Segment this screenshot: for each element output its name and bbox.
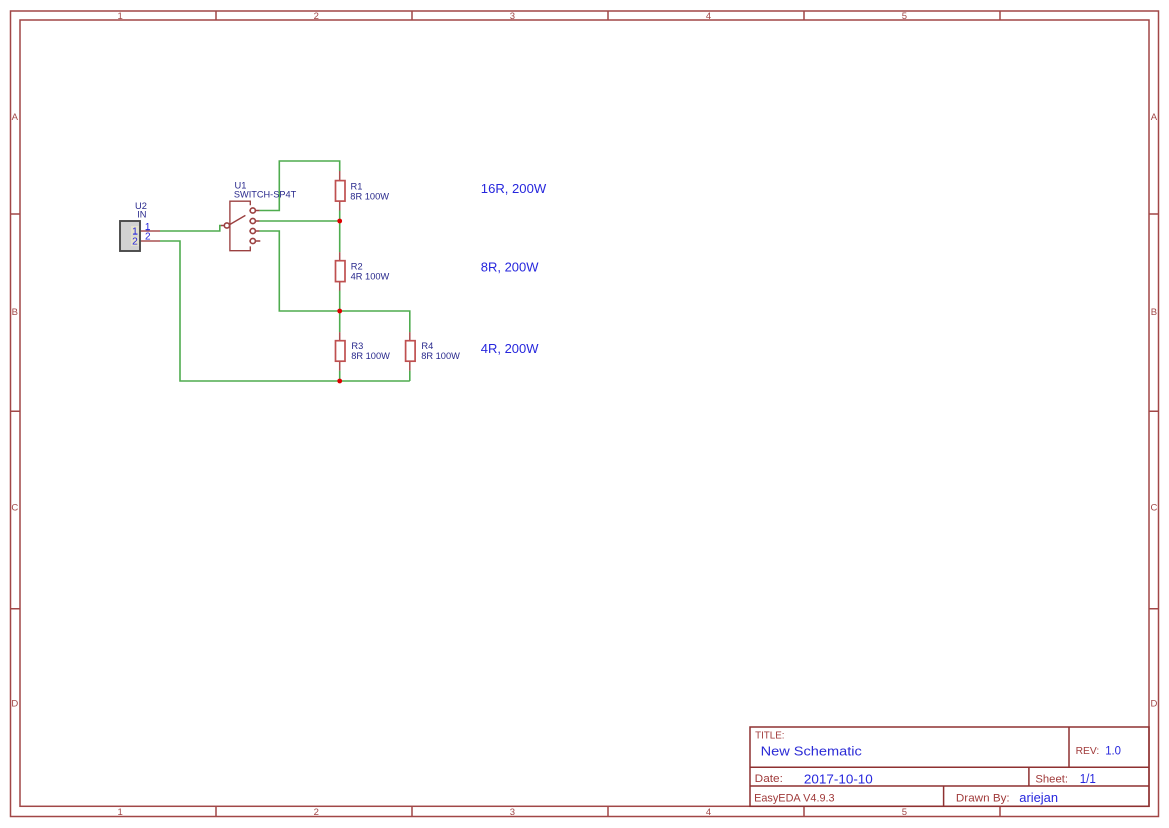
- svg-text:EasyEDA V4.9.3: EasyEDA V4.9.3: [754, 793, 835, 805]
- frame column labels bottom: [118, 807, 907, 818]
- svg-text:5: 5: [902, 11, 907, 22]
- wire pin2 U2 down and bottom rail to R4 leg: [160, 241, 410, 381]
- svg-text:4R, 200W: 4R, 200W: [481, 341, 539, 356]
- svg-text:8R, 200W: 8R, 200W: [481, 260, 539, 275]
- wire node B right to R4 top: [340, 311, 410, 332]
- connector U2 pin 1 stub: [140, 230, 160, 232]
- svg-text:C: C: [1150, 503, 1157, 514]
- resistor R3 pin stubs: [339, 332, 341, 371]
- wire R4 bottom to bottom rail: [409, 371, 411, 381]
- label R3: [351, 341, 390, 361]
- svg-text:Sheet:: Sheet:: [1035, 773, 1068, 785]
- frame row labels right: [1150, 112, 1157, 709]
- left row ticks: [11, 214, 21, 609]
- label R4: [421, 341, 460, 361]
- svg-text:4: 4: [706, 11, 711, 22]
- connector U2 pin 2 stub: [140, 240, 160, 242]
- resistor R3 body: [336, 341, 346, 362]
- svg-text:TITLE:: TITLE:: [755, 730, 784, 741]
- svg-text:D: D: [1150, 698, 1157, 709]
- wire R3 bottom to node C: [339, 371, 341, 381]
- wire switch throw3 down to node B: [259, 231, 340, 311]
- right row ticks: [1149, 214, 1159, 609]
- connector U2 body: [120, 221, 140, 251]
- junction node B: [337, 309, 342, 314]
- U2 pin numbers outside: [145, 222, 151, 242]
- label R2: [351, 262, 390, 282]
- svg-text:8R 100W: 8R 100W: [350, 192, 389, 202]
- svg-text:16R, 200W: 16R, 200W: [481, 181, 547, 196]
- svg-text:4: 4: [706, 807, 711, 818]
- switch U1 body outline: [230, 201, 250, 251]
- switch U1 common contact: [224, 223, 229, 228]
- U2 pin names inside: [132, 227, 138, 248]
- svg-text:Date:: Date:: [755, 773, 783, 785]
- wire pin1 U2 to switch common: [160, 226, 221, 232]
- svg-text:2: 2: [314, 11, 319, 22]
- wire switch throw1 up to R1 top: [259, 161, 340, 211]
- wire R2 bottom to R3 top: [339, 291, 341, 333]
- svg-text:R4: R4: [421, 341, 433, 351]
- svg-text:D: D: [11, 698, 18, 709]
- frame row labels left: [11, 112, 18, 709]
- svg-text:1.0: 1.0: [1105, 743, 1121, 757]
- svg-text:5: 5: [902, 807, 907, 818]
- wire switch throw2 to node A: [259, 220, 340, 222]
- svg-text:1: 1: [118, 11, 123, 22]
- resistor R4 pin stubs: [409, 332, 411, 371]
- resistor R2 pin stubs: [339, 252, 341, 291]
- svg-text:IN: IN: [137, 210, 146, 220]
- junction node A: [337, 219, 342, 224]
- svg-text:2: 2: [145, 232, 151, 243]
- svg-text:2: 2: [132, 236, 138, 247]
- label U1: [234, 181, 297, 200]
- svg-text:REV:: REV:: [1076, 746, 1100, 757]
- label U2: [135, 201, 147, 220]
- svg-text:3: 3: [510, 807, 515, 818]
- switch U1 throw contact stubs: [221, 211, 260, 242]
- switch U1 throw contacts: [224, 208, 255, 244]
- connector U2 pin name highlights: [131, 226, 139, 236]
- svg-text:SWITCH-SP4T: SWITCH-SP4T: [234, 190, 297, 200]
- svg-text:ariejan: ariejan: [1019, 790, 1058, 805]
- resistor R4 body: [406, 341, 416, 362]
- svg-text:A: A: [1151, 112, 1158, 123]
- svg-text:1: 1: [118, 807, 123, 818]
- svg-text:R1: R1: [351, 182, 363, 192]
- svg-text:B: B: [12, 307, 18, 318]
- label R1: [350, 182, 389, 202]
- resistor R1 pin stubs: [339, 171, 341, 211]
- svg-text:8R 100W: 8R 100W: [351, 351, 390, 361]
- svg-text:1/1: 1/1: [1080, 772, 1096, 786]
- svg-text:4R 100W: 4R 100W: [351, 272, 390, 282]
- junction node C: [337, 379, 342, 384]
- svg-text:R2: R2: [351, 262, 363, 272]
- wire R1 bottom to R2 top: [339, 210, 341, 252]
- frame column labels top: [118, 11, 907, 22]
- svg-text:2017-10-10: 2017-10-10: [804, 772, 873, 787]
- switch U1 arm: [229, 215, 245, 225]
- top column ticks: [216, 11, 1000, 20]
- resistor R2 body: [336, 261, 346, 282]
- svg-text:3: 3: [510, 11, 515, 22]
- svg-text:8R 100W: 8R 100W: [421, 351, 460, 361]
- svg-text:B: B: [1151, 307, 1157, 318]
- svg-text:C: C: [11, 503, 18, 514]
- bottom column ticks: [216, 806, 1000, 816]
- svg-text:Drawn By:: Drawn By:: [956, 793, 1010, 805]
- resistor R1 body: [336, 181, 346, 202]
- U2 pin digit serif feet: [133, 230, 150, 234]
- svg-text:A: A: [12, 112, 19, 123]
- svg-text:R3: R3: [351, 341, 363, 351]
- svg-text:2: 2: [314, 807, 319, 818]
- svg-text:New Schematic: New Schematic: [761, 744, 863, 759]
